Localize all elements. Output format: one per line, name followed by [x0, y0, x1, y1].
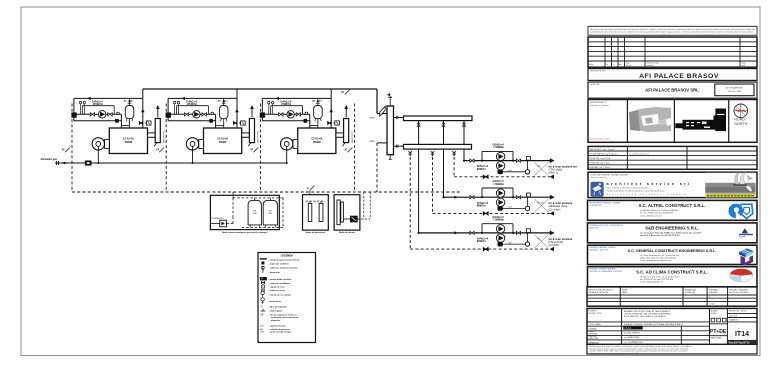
expansion vessel AT-500l unit 1 [125, 98, 134, 125]
pipe: unit 3 pump line [262, 114, 310, 128]
svg-text:27kW/7m: 27kW/7m [93, 104, 103, 106]
pipe: unit 1 supply riser [141, 89, 145, 128]
title block: revision table [588, 37, 757, 67]
svg-text:2007 / 118: 2007 / 118 [729, 315, 737, 317]
pressure station box [210, 195, 279, 229]
svg-text:SCARA /: SCARA / [711, 310, 718, 313]
pump bypass loop unit 2 [177, 106, 209, 115]
pipe: burner gas stub unit 3 [286, 146, 288, 164]
balancing valve circuit 2 (black) [483, 212, 488, 216]
ALTFEL logo [729, 204, 753, 219]
ship photo [705, 172, 755, 194]
motorized valve unit 3 (black) [260, 113, 265, 118]
pump GrPaCo=6 upper [496, 225, 504, 233]
svg-text:- robinet de inchidere: - robinet de inchidere [269, 262, 290, 265]
flue arrow unit 1 [156, 105, 160, 117]
svg-text:sos. de Centura-Tunari Nr. 1/: sos. de Centura-Tunari Nr. 1/XXIII, Com.… [640, 232, 702, 235]
svg-text:(continut): (continut) [647, 64, 654, 67]
svg-text:27kW/7m: 27kW/7m [187, 104, 197, 106]
pipe: circuit 1 return (dashed) [454, 175, 554, 179]
pipe: unit 2 pump line [168, 114, 216, 128]
svg-text:cET: cET [260, 332, 265, 334]
svg-text:500l: 500l [268, 213, 272, 215]
valve at separator inlet [380, 106, 385, 116]
dosing station box [334, 195, 360, 230]
svg-text:HWS: HWS [370, 117, 375, 119]
softening tanks [308, 203, 323, 221]
svg-text:7,5kW/8m: 7,5kW/8m [493, 184, 504, 186]
svg-text:27kW/7m: 27kW/7m [281, 104, 291, 106]
pump branch loop circuit 2 [482, 188, 513, 197]
svg-text:Statie de dozare: Statie de dozare [339, 231, 356, 234]
pressure pump unit [210, 220, 226, 227]
pump GrPaCz=1 [99, 111, 106, 118]
node tag AT (header) [341, 90, 350, 95]
svg-text:tel.: 021/242.67.40; mob: 0: tel.: 021/242.67.40; mob: 0722.634.856 [640, 278, 673, 281]
chimney unit 3 [342, 119, 348, 147]
valve unit 1 right [108, 113, 112, 116]
title block: project title [588, 69, 757, 81]
svg-text:NORTH: NORTH [734, 122, 747, 126]
svg-text:- supapa de sens: - supapa de sens [269, 287, 286, 289]
company box ALTFEL CONSTRUCT [588, 200, 758, 220]
flue arrow unit 2 [250, 105, 254, 117]
valve unit 3 left [279, 113, 283, 116]
burner unit 3 [281, 138, 298, 150]
svg-text:Cos fum D350: Cos fum D350 [162, 131, 164, 145]
bypass valve unit 3 (black) [304, 119, 307, 122]
pump GrPaCo=5 lower [496, 198, 504, 206]
return pipe main (dashed) [72, 191, 460, 193]
svg-text:PT+DE: PT+DE [710, 329, 727, 335]
svg-text:INSTALATII TERMICE - SCHEMA FU: INSTALATII TERMICE - SCHEMA FUNCTIONALA … [624, 323, 683, 326]
svg-text:str. Traian Demetrescu nr.14,: str. Traian Demetrescu nr.14, Craiova, j… [640, 254, 680, 257]
svg-text:dilatarilor: dilatarilor [271, 319, 280, 322]
node tag AT3 [250, 148, 258, 153]
svg-text:6kW/7m: 6kW/7m [477, 241, 486, 243]
svg-text:ADRESA PROIECT:: ADRESA PROIECT: [590, 101, 607, 104]
title block: note box [588, 26, 757, 35]
title block: beneficiary [588, 82, 757, 98]
svg-text:T°: T° [260, 306, 262, 309]
svg-text:revizie: revizie [626, 64, 631, 67]
svg-text:e-mail: adclima@gmail.com: e-mail: adclima@gmail.com [640, 282, 664, 284]
pipe: unit 3 supply riser [329, 89, 333, 128]
motorized valve unit 1 (black) [72, 113, 77, 118]
svg-text:HWR: HWR [370, 141, 375, 143]
thermometer unit 3 [268, 101, 270, 114]
svg-text:- contor energie termica: - contor energie termica [269, 331, 293, 334]
unit boundary line 2 (dashed) [165, 104, 167, 193]
svg-text:AFI PALACE BRASOV: AFI PALACE BRASOV [639, 73, 719, 80]
valve unit 2 right [202, 113, 206, 116]
svg-text:COORDONATOR / ing. M. Ionescu: COORDONATOR / ing. M. Ionescu [590, 152, 618, 155]
svg-text:- dezaerator: - dezaerator [269, 271, 281, 274]
svg-text:noi. / NOVEMBER 2007: noi. / NOVEMBER 2007 [624, 342, 643, 344]
svg-text:ing. EMIL IONESCU: ing. EMIL IONESCU [624, 333, 641, 335]
svg-text:AT - 500 l: AT - 500 l [312, 99, 322, 102]
bypass meter line circuit 1 [503, 161, 528, 172]
flue duct unit 3 [336, 133, 344, 137]
valve unit 2 left [184, 113, 188, 116]
unit boundary line 1 (dashed) [71, 104, 73, 193]
motorized valve unit 2 (black) [166, 113, 171, 118]
svg-text:- robinet cu sfera: - robinet cu sfera [269, 289, 286, 292]
pipe: unit 1 boiler top connections [121, 126, 129, 129]
architect service logo [591, 182, 604, 197]
bypass meter line circuit 3 [503, 233, 528, 244]
pump GrPaCo=4 upper [496, 152, 504, 160]
valve circuit 2 left [470, 196, 474, 199]
svg-text:ARHITECTURA / ARCHITECT: ARHITECTURA / ARCHITECT [589, 288, 614, 291]
svg-text:- conducta agent termic tur/re: - conducta agent termic tur/retur [269, 258, 300, 261]
svg-text:S.C. GENERAL CONSTRUCT ENGINEE: S.C. GENERAL CONSTRUCT ENGINEERING S.R.L… [628, 249, 717, 253]
pipe: unit 1 bypass line [74, 120, 122, 122]
pump bypass loop unit 3 [271, 106, 303, 115]
svg-text:Rev.03 Final IT14: Rev.03 Final IT14 [729, 340, 750, 344]
pump GrPaCo=5 upper [496, 189, 504, 197]
svg-text:PROIECTAT / ing. A. Radu: PROIECTAT / ing. A. Radu [590, 157, 611, 160]
compass NORD [733, 103, 748, 126]
pipe: separator to supply manifold [393, 116, 403, 119]
balancing valve circuit 3 (black) [483, 247, 488, 251]
svg-text:PROIECTANT GENERAL / GENERAL D: PROIECTANT GENERAL / GENERAL DESIGNER [591, 174, 630, 177]
air vent separator [387, 93, 392, 106]
supply manifold [404, 116, 473, 121]
svg-text:S&B ENGINEERING S.R.L.: S&B ENGINEERING S.R.L. [645, 226, 699, 231]
svg-text:SPECIALIT. VALIDATA: SPECIALIT. VALIDATA [729, 288, 748, 291]
svg-text:str. Vidin nr.3, bl.3, sc.B, e: str. Vidin nr.3, bl.3, sc.B, et.4, ap.15… [640, 275, 679, 278]
pipe: separator return to boilers (dashed) [377, 143, 387, 192]
pump GrPaCo=6 lower [496, 234, 504, 242]
svg-text:PC: PC [537, 238, 540, 240]
svg-text:architect service srl: architect service srl [607, 181, 692, 186]
connection cross circuit 3 [535, 235, 549, 248]
svg-text:b-dul. aviatorilor nr. 63, sec: b-dul. aviatorilor nr. 63, sector 1, buc… [607, 187, 648, 190]
svg-text:IT14: IT14 [735, 331, 749, 338]
svg-text:privind dreptul de autor si dr: privind dreptul de autor si drepturile c… [591, 31, 754, 34]
pipe: burner gas stub unit 2 [192, 146, 194, 164]
safety valve group unit 3 [328, 121, 340, 125]
svg-text:- manometru cu robinet: - manometru cu robinet [269, 294, 292, 297]
gas supply pipe (Alimentare gaz) [55, 161, 287, 165]
svg-text:- termometru: - termometru [269, 300, 282, 303]
svg-text:R2": R2" [537, 166, 541, 168]
svg-text:7,5kW/8m: 7,5kW/8m [493, 220, 504, 222]
safety valve group unit 2 [233, 121, 245, 125]
pipe: circuit 3 return (dashed) [410, 247, 554, 251]
pipe: unit 1 return top line [74, 97, 143, 121]
yellow strip [705, 194, 755, 198]
svg-text:(CT+MT): (CT+MT) [549, 243, 560, 247]
GENERAL CONSTRUCT logo [739, 248, 754, 265]
company box S&B ENGINEERING [588, 223, 758, 243]
svg-text:tel.: 40 - 251/412.345; 40 - 2: tel.: 40 - 251/412.345; 40 - 251/416.789 [640, 212, 673, 215]
pipe: return manifold to separator [393, 145, 403, 148]
svg-text:COMPRESOR: COMPRESOR [211, 218, 223, 220]
label circuit 3 destination [549, 237, 573, 247]
valve circuit 3 left [470, 231, 474, 234]
node tag AT2 [156, 148, 164, 153]
architect service text [607, 181, 692, 196]
svg-text:DESENAT /: DESENAT / [589, 328, 598, 331]
expansion tank VE1 [248, 200, 261, 227]
svg-text:CONTRACTOR: CONTRACTOR [590, 204, 603, 207]
flow meter circuit 1 [525, 170, 529, 174]
flue duct unit 1 [148, 133, 156, 137]
hydraulic separator [387, 106, 394, 155]
label circuit 2 destination [549, 201, 573, 211]
pipe: supply riser to circuit 1 [462, 118, 465, 161]
supply header pipe to separator [143, 89, 387, 114]
meter valve circuit 3 (black) [498, 242, 503, 246]
svg-text:PROJECT TITLE: PROJECT TITLE [589, 313, 603, 315]
company box GENERAL CONSTRUCT [588, 245, 758, 264]
svg-text:AT - 500 l: AT - 500 l [124, 99, 134, 102]
meter valve circuit 1 (black) [498, 170, 503, 174]
svg-text:pR: pR [260, 329, 263, 331]
node tag AT4 [344, 148, 352, 153]
valve unit 1 left [90, 113, 94, 116]
svg-text:I S 0 1: I S 0 1 [625, 327, 633, 330]
sensor box circuit 2 [527, 193, 531, 197]
svg-text:VENTILATII - EXECUTIE: VENTILATII - EXECUTIE [590, 249, 610, 252]
svg-text:VE: VE [260, 315, 264, 317]
svg-text:B-dul Garii nr.1, Brasov: B-dul Garii nr.1, Brasov [590, 105, 609, 107]
svg-text:B-DUL GARII NR.1, MUN. BRASOV,: B-DUL GARII NR.1, MUN. BRASOV, JUD. BRAS… [624, 315, 667, 318]
pipe: circuit 1 supply main [464, 158, 555, 163]
svg-text:autor: autor [742, 64, 746, 67]
pump bypass loop unit 1 [82, 106, 114, 115]
valve circuit 1 right [516, 159, 520, 162]
svg-text:- filtru de impuritati: - filtru de impuritati [269, 306, 288, 309]
svg-text:7,5kW/8m: 7,5kW/8m [493, 147, 504, 149]
svg-text:SCARA(M): SCARA(M) [709, 288, 718, 291]
burner unit 2 [186, 138, 203, 150]
svg-text:1 : 100: 1 : 100 [709, 304, 715, 306]
pipe: unit 2 boiler top connections [216, 126, 224, 129]
svg-text:Alimentare gaz: Alimentare gaz [41, 158, 58, 161]
svg-text:Statie de dedurizare: Statie de dedurizare [306, 231, 327, 234]
svg-text:S.C. AD CLIMA CONSTRUCT S.R.L.: S.C. AD CLIMA CONSTRUCT S.R.L. [636, 270, 708, 275]
separator drain [389, 155, 392, 160]
pipe: circuit 3 supply main [419, 231, 555, 236]
title block: architect service block [588, 172, 757, 197]
valve unit 3 right [296, 113, 300, 116]
svg-text:EXECUTIE: EXECUTIE [590, 227, 599, 229]
junction dots circuit 3 [418, 232, 515, 234]
S&B logo [739, 228, 753, 238]
svg-text:GrPaCo=4: GrPaCo=4 [493, 144, 505, 147]
pump GrPaCz=2 [193, 111, 200, 118]
svg-text:C1 / viitor): C1 / viitor) [549, 207, 561, 211]
skyline image [675, 109, 726, 132]
svg-text:600kW: 600kW [125, 141, 133, 144]
bypass valve unit 1 (black) [116, 119, 119, 122]
svg-text:SIGNATURE: SIGNATURE [685, 291, 696, 294]
svg-text:(AHU-1): (AHU-1) [549, 171, 559, 175]
pipe: circuit 2 supply main [444, 195, 555, 200]
svg-text:GrPaCo=4: GrPaCo=4 [477, 165, 489, 168]
expansion tank VE2 [263, 200, 277, 227]
svg-text:SCALE: SCALE [711, 312, 717, 315]
title block: coordinator table [588, 146, 757, 169]
pipe: unit 2 return top line [168, 97, 237, 121]
svg-text:600kW: 600kW [219, 141, 227, 144]
svg-text:cam.2, Et.1, Bucuresti; Tel. 0: cam.2, Et.1, Bucuresti; Tel. 021-301.70.… [640, 234, 680, 237]
manometer unit 3 [272, 101, 274, 114]
svg-text:- vas de expansiune inchis cu: - vas de expansiune inchis cu [269, 315, 298, 317]
dosing pump (black) [343, 216, 357, 222]
bottom note strip [587, 344, 757, 355]
svg-text:500l: 500l [253, 213, 257, 215]
pipe: return riser from circuit 3 (dashed) [409, 147, 412, 249]
svg-text:cont: cont [508, 206, 512, 209]
connection cross circuit 2 [535, 199, 549, 212]
pipe: burner gas stub unit 1 [97, 146, 99, 164]
svg-text:SCALE(M): SCALE(M) [709, 291, 718, 294]
svg-text:VERIFICAT / ing. D. Stan: VERIFICAT / ing. D. Stan [590, 162, 610, 165]
sensor box circuit 3 [527, 229, 531, 233]
junction dots circuit 1 [463, 160, 514, 162]
pump GrPaCz=3 [287, 111, 294, 118]
pipe: unit 3 boiler top connections [310, 126, 318, 129]
pipe: unit 2 supply riser [235, 89, 239, 128]
svg-text:6kW/7m: 6kW/7m [477, 205, 486, 207]
svg-text:LEGENDA: LEGENDA [281, 255, 293, 258]
pressure station dashed pipes [226, 192, 283, 228]
svg-text:Statie pentru mentinerea presi: Statie pentru mentinerea presiunii (cu p… [222, 231, 268, 234]
safety valve group unit 1 [139, 121, 151, 125]
svg-text:SEMNATURA: SEMNATURA [685, 288, 697, 291]
bypass valve unit 2 (black) [210, 119, 213, 122]
pump GrPaCo=4 lower [496, 162, 504, 170]
svg-text:e-mail: generalconstruct@yahoo: e-mail: generalconstruct@yahoo.com [640, 259, 672, 262]
svg-text:ing. MIHAI DOBRE: ing. MIHAI DOBRE [624, 336, 640, 339]
AD CLIMA logo [730, 269, 753, 282]
svg-text:- robinet de echilibrare: - robinet de echilibrare [269, 282, 291, 285]
svg-text:ARHITECTURA BUCURESTI ROMANIA: ARHITECTURA BUCURESTI ROMANIA [607, 193, 688, 196]
flue duct unit 2 [242, 133, 250, 137]
svg-text:membrana, pentru preluarea: membrana, pentru preluarea [271, 316, 299, 319]
svg-text:DATA / DATE: DATA / DATE [589, 337, 600, 340]
check valve unit 1 [117, 112, 120, 115]
pipe: unit 2 bypass line [168, 120, 216, 122]
flow meter circuit 3 [525, 242, 529, 246]
bypass meter line circuit 2 [503, 197, 528, 208]
dosing dashed pipes [357, 192, 370, 219]
node tag AT1 [62, 148, 70, 153]
check valve unit 3 [305, 112, 308, 115]
thermometer unit 1 [79, 101, 81, 114]
manometer unit 1 [83, 101, 85, 114]
sensor box circuit 1 [527, 156, 531, 160]
svg-text:AUTORIZATIE NR.: AUTORIZATIE NR. [726, 87, 743, 90]
site plan image [629, 107, 671, 132]
pipe: unit 1 pump line [74, 114, 122, 128]
expansion vessel AT-500l unit 3 [314, 98, 323, 125]
svg-text:VENTILATII SI CLIMATIZARE - EX: VENTILATII SI CLIMATIZARE - EXECUTIE [590, 270, 623, 273]
svg-text:- pompa dubla circulatie: - pompa dubla circulatie [269, 278, 293, 281]
svg-text:- robinet cu actionare electri: - robinet cu actionare electrica [269, 267, 299, 270]
pipe: supply riser to circuit 2 [442, 118, 445, 197]
connection cross circuit 1 [535, 162, 549, 175]
valve circuit 1 left [470, 159, 474, 162]
expansion vessel AT-500l unit 2 [220, 98, 229, 125]
svg-text:s.c. architect service s.r.l.: s.c. architect service s.r.l. [629, 152, 650, 155]
svg-text:Cos fum D350: Cos fum D350 [256, 131, 258, 145]
pipe: circuit 2 return (dashed) [433, 211, 555, 215]
svg-text:- robinet golire: - robinet golire [269, 310, 284, 313]
pipe: unit 3 bypass line [262, 120, 310, 122]
boiler CZ-01 [109, 128, 147, 154]
svg-text:CENTRU COMERCIAL, BIROURI, SPA: CENTRU COMERCIAL, BIROURI, SPATII DE AGR… [624, 313, 672, 316]
svg-text:DENUMIRE PROIECT: DENUMIRE PROIECT [590, 70, 606, 72]
meter valve circuit 2 (black) [498, 206, 503, 210]
burner unit 1 [92, 138, 109, 150]
pipe: supply riser to circuit 3 [417, 118, 420, 233]
return manifold [404, 144, 472, 149]
unit boundary line 3 (dashed) [259, 104, 261, 193]
svg-text:- clapeta antiretur: - clapeta antiretur [269, 325, 286, 328]
junction dots circuit 2 [442, 196, 514, 198]
svg-text:Nr.rev.: Nr.rev. [589, 63, 594, 66]
pipe: return riser from circuit 1 (dashed) [452, 147, 455, 177]
svg-text:tel/fax: 0251 / 417.722; mob:: tel/fax: 0251 / 417.722; mob: 0722.334.4… [640, 257, 676, 260]
svg-text:- reductor de presiune: - reductor de presiune [269, 328, 291, 331]
svg-text:Cos fum D350: Cos fum D350 [350, 131, 352, 145]
chimney unit 1 [154, 119, 160, 147]
svg-text:e-mail: altfel@construct.ro: e-mail: altfel@construct.ro [640, 214, 662, 217]
svg-text:INSTALATII / SERVICES: INSTALATII / SERVICES [589, 291, 610, 294]
valve circuit 2 right [516, 196, 520, 199]
svg-text:TITLU PLANSA /: TITLU PLANSA / [589, 323, 602, 326]
svg-text:S.C. ALTFEL CONSTRUCT S.R.L.: S.C. ALTFEL CONSTRUCT S.R.L. [639, 203, 706, 208]
svg-text:APPROVED SPECIALTY: APPROVED SPECIALTY [729, 291, 750, 294]
legend box [258, 253, 316, 343]
svg-text:ANSAMBLU MULTIFUNCTIONAL AFI P: ANSAMBLU MULTIFUNCTIONAL AFI PALACE BRAS… [624, 310, 671, 313]
flow meter circuit 2 [525, 206, 529, 210]
manometer unit 2 [177, 101, 179, 114]
svg-text:str. Mr.Radu Popescu nr.5, bl.: str. Mr.Radu Popescu nr.5, bl.5bis, CRAI… [640, 209, 678, 212]
boiler CZ-03 [298, 128, 336, 154]
unit boundary line 4 (dashed) [354, 104, 356, 193]
svg-text:mR: mR [260, 326, 264, 328]
dosing tank [337, 200, 344, 225]
pump branch loop circuit 1 [482, 151, 513, 160]
boiler CZ-02 [204, 128, 242, 154]
label circuit 1 destination [549, 165, 577, 175]
thermometer unit 2 [173, 101, 175, 114]
bottom info block [587, 308, 757, 344]
svg-text:plan de incadrare in zona: plan de incadrare in zona [590, 139, 610, 141]
svg-text:NAME: NAME [622, 291, 628, 294]
title block: location / images [588, 100, 757, 143]
softening dashed pipes [306, 201, 325, 203]
legend rows [260, 258, 300, 334]
svg-text:tel: (40-21) 222 44 66 ; fax:: tel: (40-21) 222 44 66 ; fax: (40-21) 22… [607, 189, 665, 192]
balancing valve circuit 1 (black) [483, 175, 488, 179]
node tag AT softening [307, 186, 315, 195]
svg-text:600kW: 600kW [313, 141, 321, 144]
svg-text:APROBAT / arh. C. Marin: APROBAT / arh. C. Marin [590, 166, 610, 169]
svg-text:AFI PALACE BRASOV SRL: AFI PALACE BRASOV SRL [645, 88, 699, 93]
signature table [587, 287, 757, 306]
valve circuit 3 right [516, 231, 520, 234]
svg-text:R1 1/2": R1 1/2" [537, 203, 544, 205]
svg-text:cont: cont [508, 241, 512, 244]
svg-text:6kW/7m: 6kW/7m [477, 169, 486, 171]
